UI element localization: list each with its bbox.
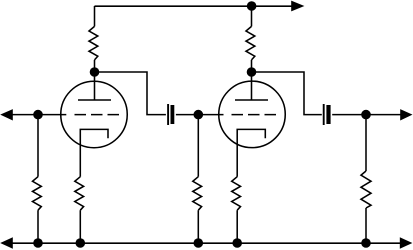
wire R1 bottom lead xyxy=(94,60,96,72)
node grid V1 junction xyxy=(33,110,43,120)
resistor R7 xyxy=(361,171,371,208)
tube V1 cathode xyxy=(80,129,108,176)
capacitor C2 plate left xyxy=(323,104,325,125)
wire input to grid V1 xyxy=(12,114,66,116)
wire R1 top lead xyxy=(94,6,96,26)
wire R7 bottom lead xyxy=(365,208,367,243)
wire grid V2 node down xyxy=(197,115,199,177)
wire R6 bottom lead xyxy=(236,210,238,243)
wire plate V2 to C2 xyxy=(252,72,322,115)
V+ off-page arrow xyxy=(291,1,304,12)
resistor R4 xyxy=(75,177,84,211)
node V+ tap junction xyxy=(247,1,257,11)
wire V+ rail top xyxy=(95,5,293,7)
tube V1 plate xyxy=(78,72,111,100)
node plate V2 junction xyxy=(247,67,257,77)
node ground R5 junction xyxy=(194,238,204,248)
capacitor C1 plate left xyxy=(167,104,169,125)
node ground R6 junction xyxy=(232,238,242,248)
node grid V2 junction xyxy=(194,110,204,120)
ground rail right off-page arrow xyxy=(400,237,413,248)
node ground R4 junction xyxy=(76,238,86,248)
wire plate V1 to C1 xyxy=(95,72,166,115)
wire C1 to grid V2 xyxy=(176,114,224,116)
wire R3 bottom lead xyxy=(37,210,39,243)
input off-page arrow xyxy=(0,109,13,120)
wire R4 bottom lead xyxy=(79,210,81,243)
tube V1 grid dashes xyxy=(75,114,120,116)
output off-page arrow xyxy=(400,109,412,120)
node output junction xyxy=(361,110,371,120)
wire R2 top lead xyxy=(251,6,253,26)
node ground R3 junction xyxy=(33,238,43,248)
wire R5 bottom lead xyxy=(197,210,199,243)
tube V1 envelope xyxy=(61,81,128,148)
tube V2 plate xyxy=(235,72,268,100)
resistor R2 xyxy=(246,26,255,60)
capacitor C2 plate right xyxy=(326,105,330,124)
resistor R5 xyxy=(193,177,202,211)
node ground R7 junction xyxy=(361,238,371,248)
resistor R6 xyxy=(232,177,241,211)
capacitor C1 plate right xyxy=(171,105,175,124)
tube V2 envelope xyxy=(219,81,286,147)
wire grid V1 node down xyxy=(37,115,39,177)
resistor R1 xyxy=(89,26,98,60)
ground rail left off-page arrow xyxy=(0,237,13,248)
wire R2 bottom lead xyxy=(251,60,253,72)
tube V2 grid dashes xyxy=(232,114,277,116)
resistor R3 xyxy=(33,177,42,211)
wire ground rail xyxy=(12,242,400,244)
wire C2 to output xyxy=(332,114,400,116)
node plate V1 junction xyxy=(90,67,100,77)
wire output node down xyxy=(365,115,367,171)
tube V2 cathode xyxy=(237,129,265,176)
